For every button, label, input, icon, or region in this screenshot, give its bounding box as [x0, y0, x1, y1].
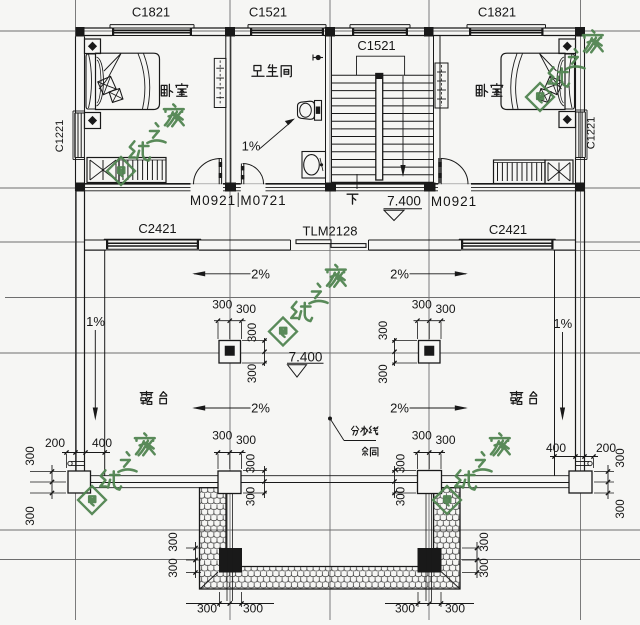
terrace inner edge line left	[104, 251, 106, 477]
label 余同	[362, 447, 368, 455]
grid axis line horizontal G (lower pier axis, right)	[461, 559, 640, 561]
dim 300x300 vertical mid-left	[264, 338, 266, 366]
window C1221 west	[72, 111, 74, 160]
watermark 图纸之家 bottom-right	[433, 433, 510, 514]
grid axis line horizontal E (mid pier axis)	[0, 352, 640, 354]
svg-text:300: 300	[247, 364, 259, 383]
window C2421 right	[459, 238, 556, 240]
column Z1 top-left	[76, 27, 85, 37]
window C1821 bay1	[110, 24, 194, 26]
constructional column GZ west-mid	[85, 113, 101, 129]
svg-text:C1821: C1821	[132, 5, 170, 20]
svg-text:C1521: C1521	[249, 5, 287, 20]
parapet edge line	[91, 482, 219, 484]
toilet	[298, 101, 315, 119]
water-divide leader dot	[328, 417, 332, 421]
south parapet wall segments	[85, 239, 107, 241]
grid axis line horizontal A (top wall)	[0, 30, 640, 32]
north wall segment	[324, 27, 352, 29]
tiled roof band fill	[200, 488, 461, 589]
svg-text:300: 300	[436, 302, 456, 316]
bed quilt decor right	[544, 76, 562, 94]
watermark 图纸之家 top-right	[526, 30, 603, 111]
wall break mark right	[576, 461, 589, 463]
north wall segment	[408, 27, 469, 29]
watermark 图纸之家 top-left	[107, 104, 184, 185]
svg-text:300: 300	[197, 602, 217, 616]
terrace inner edge line right	[554, 251, 556, 477]
grid axis line horizontal C (parapet wall, margins)	[0, 241, 85, 243]
svg-text:300: 300	[246, 454, 258, 473]
north wall segment	[544, 27, 576, 29]
grid axis line vertical 2	[229, 0, 231, 620]
grid axis line horizontal F	[0, 529, 640, 531]
svg-text:300: 300	[395, 602, 415, 616]
grid axis line horizontal D	[5, 297, 640, 299]
door M0921 right bedroom	[438, 158, 440, 184]
slope arrow 1% left	[94, 330, 96, 412]
drain lines below right pier	[425, 494, 427, 602]
svg-text:TLM2128: TLM2128	[303, 224, 358, 239]
mid pier right	[419, 341, 441, 364]
grid axis line vertical 1	[75, 0, 77, 620]
svg-text:300: 300	[396, 487, 408, 506]
dim 300x300 vertical mid-right	[394, 338, 396, 366]
grid axis line horizontal B (corridor wall, margins)	[0, 187, 85, 189]
svg-text:400: 400	[92, 436, 112, 450]
terrace left parapet wall	[75, 191, 77, 471]
svg-text:300: 300	[212, 429, 232, 443]
lower black pier right	[418, 548, 442, 573]
svg-text:C1521: C1521	[357, 38, 395, 53]
wash basin	[302, 152, 326, 179]
radiator left bedroom	[214, 58, 226, 107]
svg-text:300: 300	[436, 433, 456, 447]
mid pier left	[219, 341, 241, 364]
svg-text:M0721: M0721	[240, 193, 286, 208]
label 卫生间 (bathroom)	[252, 65, 264, 76]
parapet edge line	[91, 475, 219, 477]
floor drain	[313, 57, 323, 59]
drain lines below left pier	[226, 494, 228, 602]
label 露台 left	[140, 391, 152, 404]
svg-text:300: 300	[479, 532, 491, 551]
grid axis line vertical 4	[428, 0, 430, 620]
svg-text:300: 300	[168, 558, 180, 577]
east wall upper segment	[575, 37, 577, 113]
column Z3	[325, 27, 335, 37]
svg-text:7.400: 7.400	[289, 350, 323, 365]
window C2421 left	[104, 238, 201, 240]
constructional column GZ east-top	[559, 39, 576, 54]
svg-text:2%: 2%	[251, 267, 270, 282]
watermark 图纸之家 bottom-left	[78, 433, 155, 514]
svg-text:1%: 1%	[242, 139, 261, 154]
water-divide leader line	[330, 419, 344, 441]
svg-text:C1221: C1221	[54, 120, 66, 152]
corridor wall lower lines	[85, 187, 191, 189]
dim 300x300 bottom left	[219, 592, 221, 607]
west wall lower segment	[75, 158, 77, 192]
dim 300x300 beside right band	[476, 542, 478, 578]
constructional column GZ west-top	[85, 39, 101, 54]
svg-text:2%: 2%	[251, 401, 270, 416]
svg-text:300: 300	[396, 454, 408, 473]
svg-text:C1821: C1821	[478, 5, 516, 20]
svg-text:300: 300	[615, 448, 627, 467]
svg-text:300: 300	[25, 506, 37, 525]
svg-text:300: 300	[25, 446, 37, 465]
svg-text:M0921: M0921	[190, 193, 236, 208]
bed left bedroom	[86, 53, 160, 109]
dim 300x300 margin left	[30, 471, 66, 473]
stair down arrow	[402, 76, 404, 169]
corridor wall columns	[76, 183, 85, 192]
svg-text:C1221: C1221	[586, 117, 598, 149]
west wall upper segment	[75, 37, 77, 114]
east wall lower segment	[575, 158, 577, 192]
door M0721 bathroom	[240, 164, 242, 185]
svg-text:2%: 2%	[390, 267, 409, 282]
grid axis line vertical 5	[580, 0, 582, 620]
door M0921 left bedroom	[218, 158, 220, 184]
svg-text:300: 300	[246, 487, 258, 506]
svg-text:C2421: C2421	[138, 221, 176, 236]
slope arrow 2% lower-right	[410, 407, 467, 409]
slope leader arrow	[260, 122, 292, 149]
label 卧室 right bedroom	[476, 84, 487, 96]
label 卧室 left bedroom	[161, 84, 172, 96]
svg-text:1%: 1%	[553, 316, 572, 331]
parapet pier mid-left	[218, 471, 241, 494]
svg-text:300: 300	[445, 602, 465, 616]
constructional column GZ east-mid	[559, 112, 576, 128]
svg-text:300: 300	[236, 433, 256, 447]
slope arrow 2% lower-left	[194, 407, 251, 409]
svg-text:300: 300	[378, 321, 390, 340]
label 分水线	[351, 426, 358, 435]
stair east wall	[433, 36, 435, 184]
terrace edge line below parapet	[85, 250, 640, 252]
window C1521 bay3 (stair)	[350, 24, 410, 26]
svg-text:200: 200	[45, 436, 65, 450]
window C1221 east	[586, 110, 588, 160]
svg-text:300: 300	[615, 499, 627, 518]
label divider tick	[237, 193, 239, 208]
parapet pier far-left	[68, 471, 91, 493]
corridor wall face line	[85, 183, 191, 185]
terrace right parapet wall	[575, 191, 577, 471]
svg-text:300: 300	[479, 558, 491, 577]
window C1821 bay4	[467, 24, 546, 26]
label 下 (down)	[347, 194, 358, 204]
bathroom east wall	[325, 36, 327, 184]
svg-text:300: 300	[236, 302, 256, 316]
stair well outline	[357, 56, 405, 75]
svg-text:300: 300	[378, 364, 390, 383]
svg-text:200: 200	[596, 441, 616, 455]
svg-text:M0921: M0921	[431, 194, 477, 209]
dim 300x300 beside left band	[195, 542, 197, 578]
bed right bedroom (mirrored)	[501, 53, 575, 109]
dim 300x300 margin right	[594, 471, 614, 473]
bathroom west wall	[225, 36, 227, 184]
wardrobe left bedroom	[87, 158, 119, 183]
column Z2	[225, 27, 235, 37]
column Z4	[424, 27, 434, 37]
stair treads right flight	[383, 74, 434, 76]
grid axis line vertical 3	[329, 0, 331, 620]
stair entry stub	[356, 174, 358, 189]
north wall segment	[192, 27, 250, 29]
tiled roof band outline	[200, 488, 461, 589]
wall break mark left	[71, 461, 84, 463]
dim 300x300 vertical beside right lower pier	[394, 466, 396, 498]
bed quilt decor left	[98, 76, 116, 94]
lower black pier left	[219, 548, 242, 573]
window C1521 bay2	[248, 24, 326, 26]
parapet pier far-right	[569, 471, 592, 493]
svg-text:300: 300	[243, 602, 263, 616]
stair treads left flight	[332, 74, 376, 76]
roof edge line outer	[91, 487, 200, 489]
svg-text:300: 300	[247, 323, 259, 342]
svg-text:400: 400	[546, 441, 566, 455]
svg-text:1%: 1%	[86, 314, 105, 329]
dim 300x300 bottom right	[417, 592, 419, 607]
svg-text:300: 300	[412, 298, 432, 312]
label 露台 right	[510, 391, 522, 404]
svg-text:7.400: 7.400	[387, 194, 421, 209]
svg-text:C2421: C2421	[489, 222, 527, 237]
dim 300x300 vertical beside left lower pier	[264, 466, 266, 498]
watermark 图纸之家 center	[269, 265, 346, 346]
column Z5 top-right	[575, 27, 585, 37]
stair bottom edge	[332, 181, 434, 183]
north wall segment	[85, 27, 113, 29]
stair railing	[376, 74, 383, 181]
svg-text:2%: 2%	[390, 401, 409, 416]
parapet pier mid-right	[418, 471, 442, 494]
slope arrow 1% right	[562, 332, 564, 412]
wardrobe right bedroom	[494, 160, 546, 184]
radiator right bedroom	[435, 63, 448, 108]
sliding door TLM2128	[290, 240, 292, 250]
svg-text:300: 300	[412, 429, 432, 443]
grid axis line horizontal G (lower pier axis, left)	[0, 559, 198, 561]
slope arrow 2% upper-left	[194, 273, 251, 275]
svg-text:300: 300	[212, 298, 232, 312]
slope arrow 2% upper-right	[410, 273, 467, 275]
svg-text:300: 300	[168, 532, 180, 551]
